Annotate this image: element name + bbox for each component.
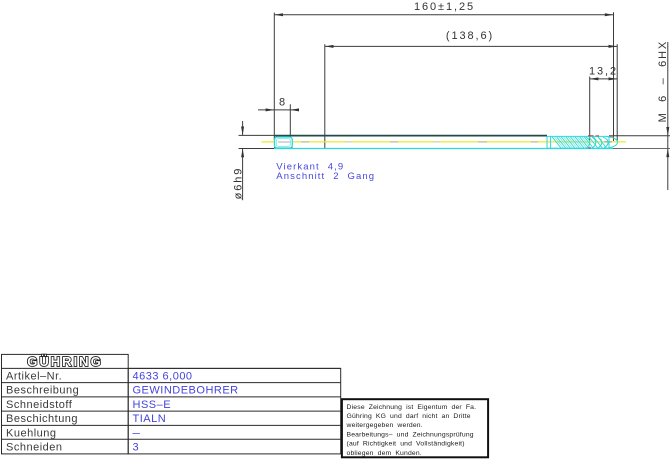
svg-text:Beschichtung: Beschichtung — [6, 413, 78, 425]
svg-text:Schneiden: Schneiden — [6, 442, 63, 454]
svg-text:obliegen dem Kunden.: obliegen dem Kunden. — [347, 450, 422, 457]
svg-text:Anschnitt 2 Gang: Anschnitt 2 Gang — [276, 171, 375, 182]
svg-text:(138,6): (138,6) — [446, 30, 494, 42]
svg-text:ø6h9: ø6h9 — [233, 167, 245, 200]
svg-text:GEWINDEBOHRER: GEWINDEBOHRER — [133, 385, 239, 397]
svg-text:13,2: 13,2 — [589, 66, 618, 78]
svg-text:8: 8 — [279, 97, 287, 109]
svg-text:Diese Zeichnung ist Eigentum d: Diese Zeichnung ist Eigentum der Fa. — [347, 404, 477, 411]
svg-text:(auf Richtigkeit und Vollständ: (auf Richtigkeit und Vollständigkeit) — [347, 441, 465, 448]
svg-text:–: – — [133, 427, 141, 439]
svg-text:3: 3 — [133, 442, 140, 454]
svg-text:HSS–E: HSS–E — [133, 399, 172, 411]
svg-text:Artikel–Nr.: Artikel–Nr. — [6, 371, 62, 383]
svg-text:Schneidstoff: Schneidstoff — [6, 399, 73, 411]
svg-text:Kuehlung: Kuehlung — [6, 427, 57, 439]
svg-text:4633 6,000: 4633 6,000 — [133, 371, 193, 383]
svg-text:Bearbeitungs– und Zeichnungspr: Bearbeitungs– und Zeichnungsprüfung — [347, 431, 474, 438]
svg-text:160±1,25: 160±1,25 — [414, 1, 475, 13]
svg-text:weitergegeben werden.: weitergegeben werden. — [346, 422, 423, 429]
svg-text:Gühring KG und darf nicht an D: Gühring KG und darf nicht an Dritte — [347, 413, 471, 420]
svg-text:M 6 – 6HX: M 6 – 6HX — [657, 40, 669, 123]
svg-text:Beschreibung: Beschreibung — [6, 385, 79, 397]
svg-text:TIALN: TIALN — [133, 413, 167, 425]
svg-text:GÜHRING: GÜHRING — [27, 354, 102, 369]
